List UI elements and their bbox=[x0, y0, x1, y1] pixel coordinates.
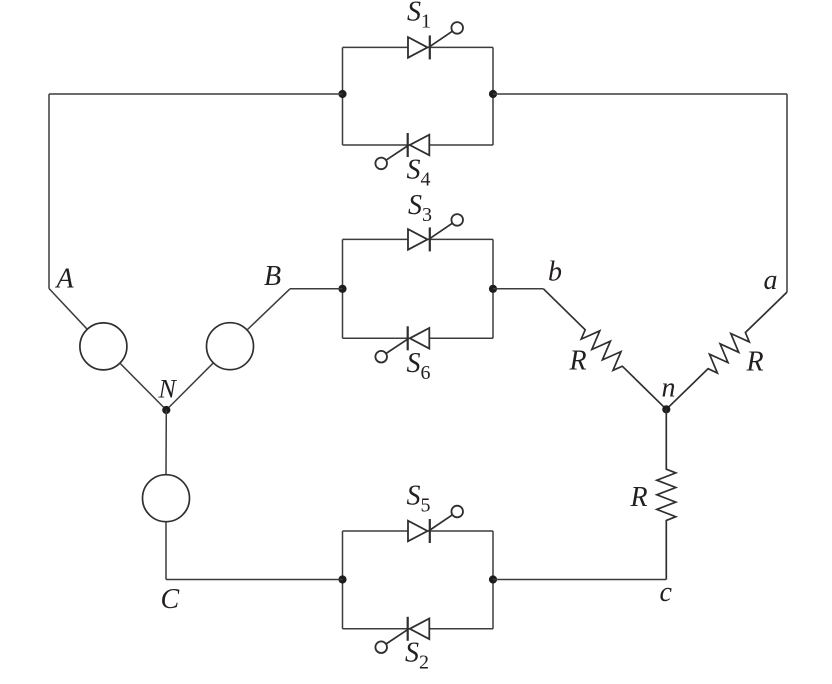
wire source B to node N bbox=[166, 363, 213, 410]
thyristor S5 bbox=[408, 506, 463, 543]
node n junction bbox=[662, 405, 670, 413]
junction right of pair 1 bbox=[489, 90, 497, 98]
junction left of pair 1 bbox=[338, 90, 346, 98]
wire source C down bbox=[165, 522, 167, 580]
thyristor S1 bbox=[408, 22, 463, 59]
svg-text:S2: S2 bbox=[405, 638, 429, 674]
wire source A to node N bbox=[120, 363, 166, 410]
svg-text:R: R bbox=[569, 346, 587, 377]
junction left of pair 2 bbox=[338, 285, 346, 293]
wire top-left horizontal bbox=[49, 93, 343, 95]
wire B bend horizontal bbox=[290, 288, 343, 290]
svg-text:a: a bbox=[764, 265, 778, 296]
resistor R (phase c) vertical bbox=[657, 409, 676, 579]
wire switch-pair 2 left vertical bbox=[342, 239, 344, 338]
wire node N to source C bbox=[165, 410, 167, 475]
junction left of pair 3 bbox=[338, 575, 346, 583]
junction right of pair 3 bbox=[489, 575, 497, 583]
wire switch-pair 1 right vertical bbox=[492, 47, 494, 145]
svg-text:S1: S1 bbox=[407, 0, 431, 32]
wire switch-pair 2 bottom bbox=[343, 337, 494, 339]
thyristor S4 bbox=[375, 133, 429, 169]
svg-text:b: b bbox=[548, 257, 562, 288]
wire c horizontal to pair 3 bbox=[493, 579, 666, 581]
svg-text:C: C bbox=[161, 584, 180, 615]
wire switch-pair 1 left vertical bbox=[342, 47, 344, 145]
wire B bend diagonal to source B bbox=[247, 289, 290, 330]
resistor R (phase a) bbox=[666, 292, 787, 409]
thyristor S2 bbox=[375, 617, 429, 653]
node N junction bbox=[162, 406, 170, 414]
svg-text:n: n bbox=[662, 373, 676, 404]
svg-text:A: A bbox=[55, 264, 75, 295]
wire switch-pair 3 top bbox=[343, 530, 494, 532]
thyristor S3 bbox=[408, 214, 463, 251]
svg-text:c: c bbox=[660, 577, 673, 608]
svg-text:R: R bbox=[630, 482, 648, 513]
svg-text:S5: S5 bbox=[407, 481, 431, 517]
source A (circle) bbox=[80, 323, 127, 370]
wire switch-pair 3 right vertical bbox=[492, 531, 494, 629]
svg-text:R: R bbox=[746, 347, 764, 378]
svg-text:B: B bbox=[264, 261, 281, 292]
source B (circle) bbox=[207, 323, 254, 370]
svg-text:S3: S3 bbox=[408, 190, 432, 226]
wire switch-pair 3 left vertical bbox=[342, 531, 344, 629]
junction right of pair 2 bbox=[489, 285, 497, 293]
wire pair2 to b bend bbox=[493, 288, 543, 290]
svg-text:N: N bbox=[158, 375, 178, 404]
svg-text:S6: S6 bbox=[407, 348, 431, 384]
wire switch-pair 1 bottom bbox=[343, 144, 494, 146]
wire left vertical (phase A feeder) bbox=[48, 94, 50, 289]
wire switch-pair 3 bottom bbox=[343, 628, 494, 630]
wire C horizontal to pair 3 bbox=[166, 579, 343, 581]
wire switch-pair 2 right vertical bbox=[492, 239, 494, 338]
wire right vertical (phase a feeder) bbox=[786, 94, 788, 292]
wire switch-pair 2 top bbox=[343, 238, 494, 240]
wire top-right horizontal bbox=[493, 93, 787, 95]
svg-text:S4: S4 bbox=[407, 155, 431, 191]
resistor R (phase b) bbox=[543, 289, 666, 410]
thyristor S6 bbox=[375, 326, 429, 362]
wire corner to source A bbox=[49, 289, 87, 330]
wire switch-pair 1 top bbox=[343, 46, 494, 48]
source C (circle) bbox=[143, 475, 190, 522]
